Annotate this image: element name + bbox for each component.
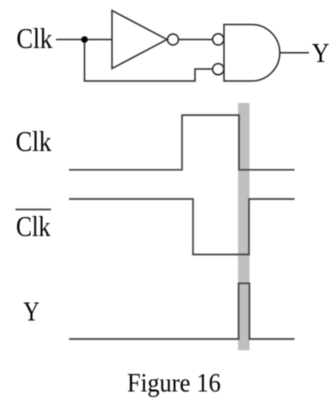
svg-text:Figure 16: Figure 16 xyxy=(127,367,221,397)
svg-text:Y: Y xyxy=(312,38,330,68)
svg-text:Clk: Clk xyxy=(16,212,51,243)
svg-text:Clk: Clk xyxy=(16,24,53,55)
svg-text:Y: Y xyxy=(23,296,39,326)
svg-text:Clk: Clk xyxy=(16,127,52,158)
